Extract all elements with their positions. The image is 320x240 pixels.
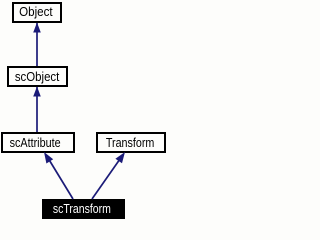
node Object <box>13 3 61 22</box>
svg-text:scTransform: scTransform <box>53 202 111 216</box>
svg-text:Transform: Transform <box>106 136 155 150</box>
inheritance arrow scAttribute to scObject <box>33 87 41 133</box>
svg-text:Object: Object <box>19 5 53 19</box>
inheritance arrow scObject to Object <box>33 23 41 67</box>
node scTransform (current class, black fill) <box>42 199 125 219</box>
svg-text:scAttribute: scAttribute <box>10 136 61 150</box>
node scObject <box>8 67 67 86</box>
svg-text:scObject: scObject <box>15 70 60 84</box>
node Transform <box>97 133 165 152</box>
inheritance arrow scTransform to scAttribute (diagonal left) <box>44 152 73 199</box>
node scAttribute <box>2 133 74 152</box>
inheritance arrow scTransform to Transform (diagonal right) <box>92 152 125 199</box>
